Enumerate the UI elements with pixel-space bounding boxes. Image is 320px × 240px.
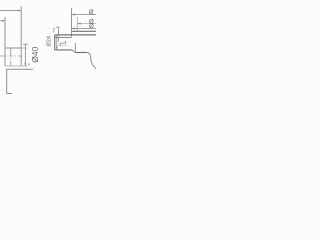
svg-text:Ø24: Ø24 [47,36,53,46]
svg-text:7: 7 [52,28,55,34]
left view: disc bottom edge (light) with extension [5,65,28,67]
right view: flange inner face vertical [74,43,76,53]
left view: Ø40 dimension line (vertical) [24,44,26,65]
right view: bore bottom line (faint) [58,45,67,47]
left view: Ø40 dim bottom arrowhead [25,63,27,66]
right view: dim 7 vertical line [58,27,60,42]
right view: dimension line 2 (light, runs off right edge) [78,23,97,25]
right view: flange top outline [72,30,97,32]
left view: D2 arrowhead [2,20,5,22]
right view: bore top line [55,37,72,39]
right view: neck top / recess floor outline [55,34,97,36]
svg-text:Ø: Ø [89,23,94,30]
right view: dimension line 3 (runs off right edge) [72,28,97,30]
left view: D1 extension line / disc right edge [20,6,22,66]
frame line vertical [6,69,8,93]
left view: D2 extension line / disc left edge [4,17,6,66]
right view: dim 2 arrowhead [77,23,80,25]
svg-text:Ø: Ø [89,9,94,16]
right view: bore step lines (Z step) [60,41,65,46]
right view: neck dim top arrowhead [56,35,57,38]
right view: dim 2 extension line [76,17,78,31]
left view: dimension line D1 (width dim, runs off left edge) [0,10,21,12]
right view: dim 7 top tick [56,26,60,28]
right view: dim 3 arrowhead [72,28,75,30]
frame corner hook [7,93,12,95]
left view: small mark near dim foot [28,63,30,65]
right view: dim 7 arrowhead [58,32,59,35]
left view: horizontal centerline (dash-dot) [0,55,23,57]
left view: Ø40 dim top tick [23,43,28,45]
svg-text:Ø40: Ø40 [30,46,40,62]
right view: dim 1 extension line / flange left face [71,8,73,36]
right view: neck bottom outline [55,49,72,51]
right view: dimension line 1 (runs off right edge) [72,14,97,16]
right view: neck Ø dimension line (vertical, arrows both ends) [56,35,58,50]
left view: dimension line D2 (runs off left edge) [0,20,4,22]
right view: flange bottom outline [75,52,87,54]
frame line horizontal below left view [7,68,33,70]
right view: large corner arc running off right edge [87,53,97,70]
right view: taper to flange bottom [72,50,76,53]
left view: D1 arrowhead [18,10,21,12]
left view: disc top edge [5,47,21,49]
left view: top extension for vertical dim [21,47,27,49]
right view: neck dim bottom arrowhead [56,46,57,49]
right view: left end face [54,35,56,50]
left view: vertical centerline (dash-dot) [10,48,12,66]
right view: dim 1 arrowhead [72,14,75,16]
